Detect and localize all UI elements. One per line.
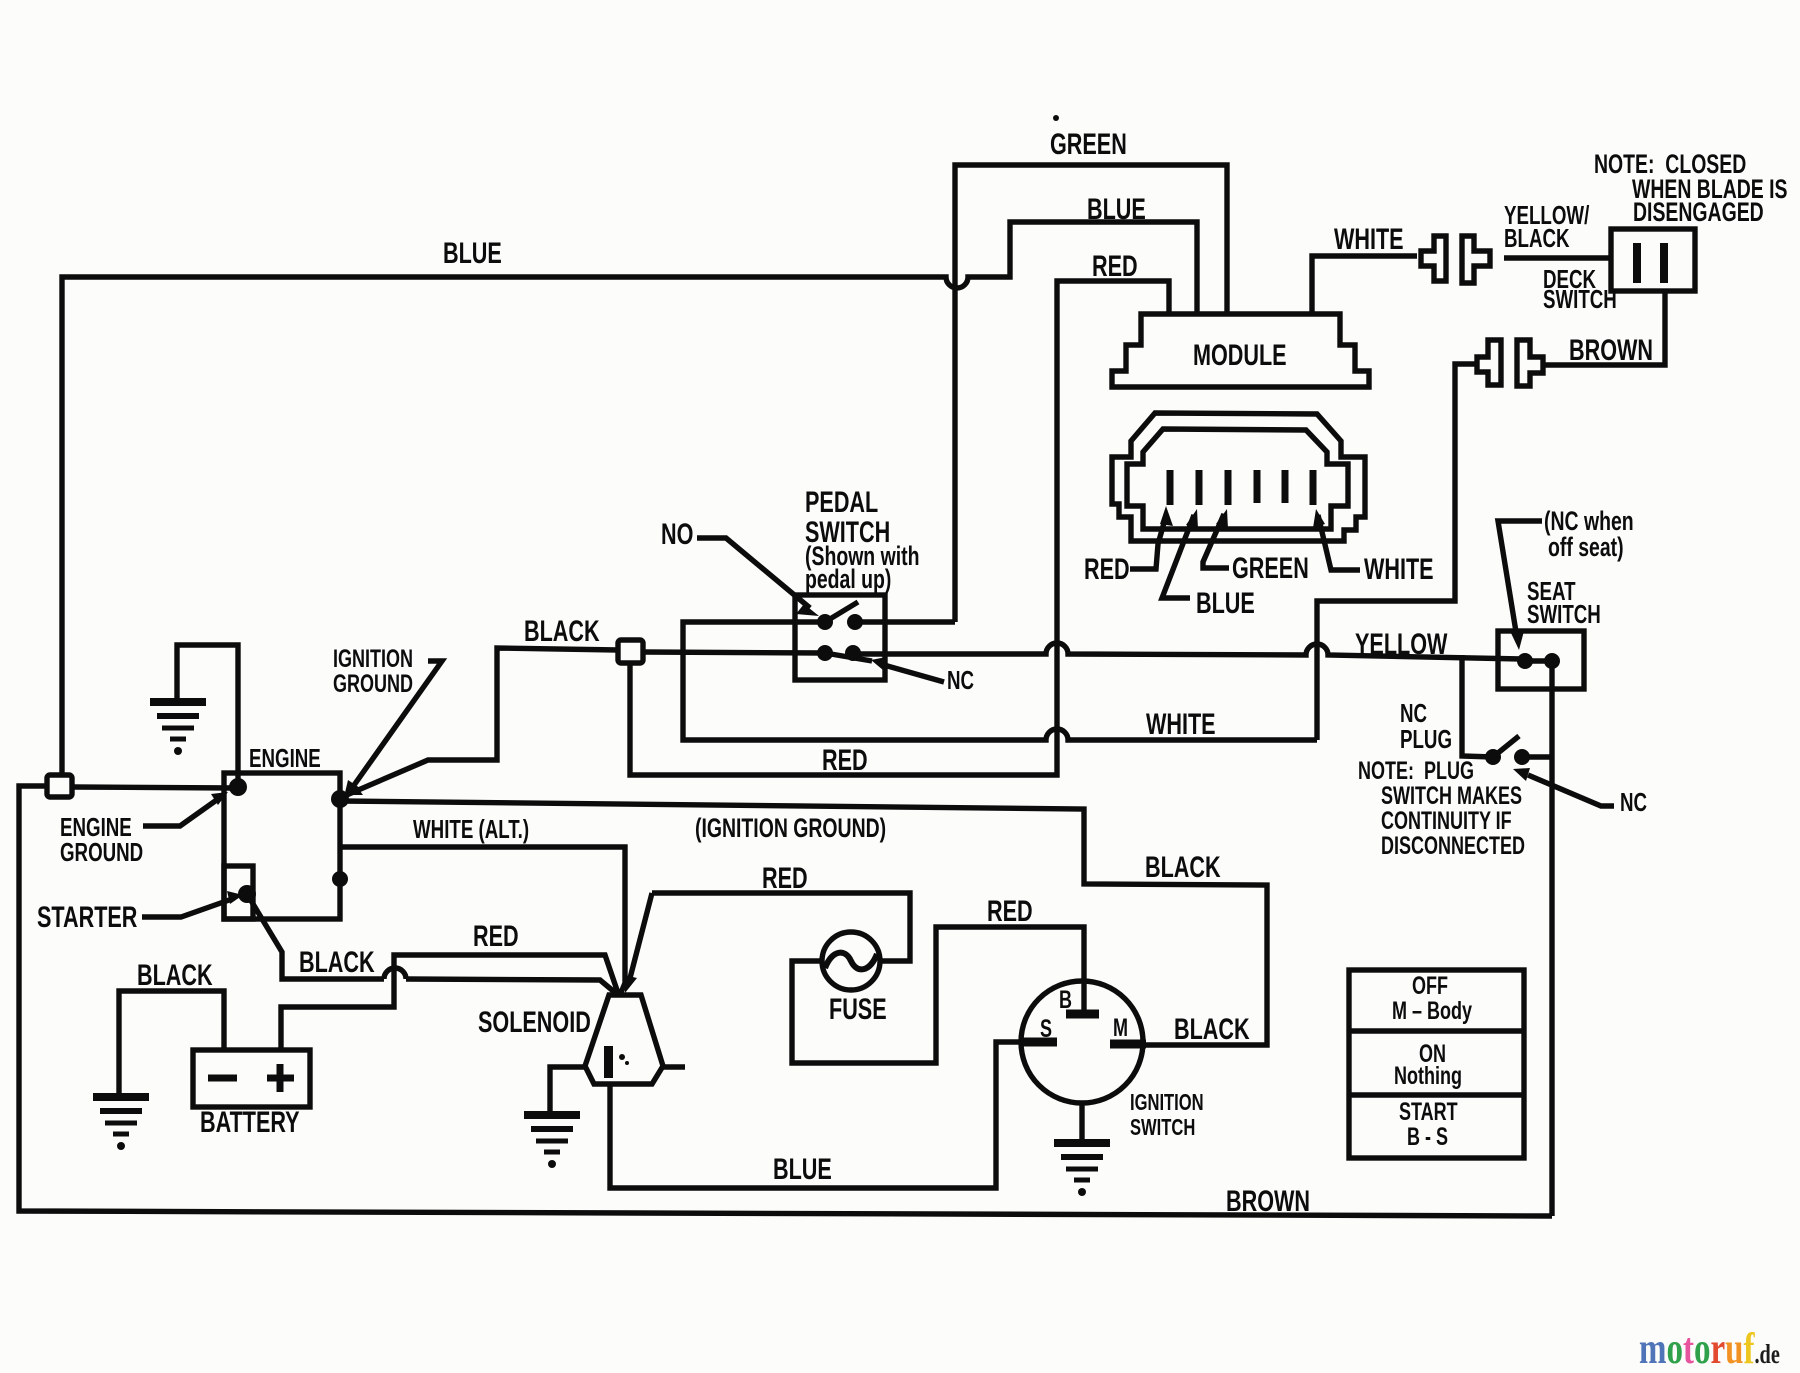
ignition terminal M [1110,1040,1146,1049]
wire WHITE module to deck connector [1312,256,1417,314]
leader BLUE pin2 [1162,509,1198,598]
label YELLOW [1355,630,1447,660]
wire black node to pedal [643,652,825,653]
label ENGINE GROUND [60,814,132,840]
label YELLOW/BLACK [1504,202,1589,228]
label NC pedal [947,667,974,693]
deck switch [1611,229,1695,291]
seat switch contacts [1517,653,1560,669]
label SEAT SWITCH [1527,578,1576,604]
label DECK SWITCH [1543,266,1596,292]
leader RED pin1 [1130,506,1173,569]
table text ON Nothing [1419,1042,1446,1067]
leader NC plug [1513,768,1614,806]
ground battery [93,1097,149,1150]
label BLACK battery [137,961,213,991]
battery plus symbol [267,1064,294,1092]
ignition switch circle [1021,981,1143,1103]
solenoid body [585,995,663,1084]
table OFF/ON/START [1349,970,1524,1158]
module connector outer shell [1112,413,1365,541]
wire BLUE bottom run [610,1042,1021,1188]
wire solenoid to ground [550,1067,563,1112]
solenoid core bar [604,1046,629,1078]
label BROWN bottom [1226,1187,1310,1217]
engine ground square node [47,775,72,797]
label (IGNITION GROUND) [695,815,886,842]
wire GREEN run [955,165,1227,622]
label WHITE row [1146,710,1216,740]
engine ground junction dot [229,778,247,796]
hop black over red vertical [384,968,406,979]
ignition switch ground stem [1079,1103,1084,1140]
leader NO [697,538,819,616]
connector pair (brown) [1477,340,1543,386]
NC plug contacts [1485,736,1552,765]
fuse [822,932,880,990]
arrowhead ignition ground wire [342,784,363,795]
label SOLENOID [478,1008,591,1038]
wire battery minus to ground [119,991,224,1094]
label STARTER [37,903,137,933]
label FUSE [829,995,887,1025]
wire BLUE top run [62,222,1197,775]
label WHITE deck row [1334,225,1404,255]
label IGNITION SWITCH [1130,1091,1204,1114]
leader GREEN pin3 [1203,509,1229,568]
label BLUE left run [443,239,502,269]
wire battery plus to red row [281,955,618,1050]
label RED pin1 [1084,555,1130,585]
wire brown connector down to white row [1317,364,1477,740]
label RED to B [987,897,1033,927]
label NC seat [1620,789,1647,815]
label GREEN pin3 [1232,554,1309,584]
battery box [193,1050,310,1107]
wire WHITE (ALT.) [340,847,625,995]
wire YELLOW/BLACK to deck switch [1504,255,1611,260]
label M [1113,1016,1128,1041]
wire seat switch down to brown row [1549,661,1554,1216]
leader IGNITION GROUND [344,661,442,797]
label BLUE module row [1087,195,1146,225]
table text START B-S [1399,1100,1458,1125]
seat switch box [1498,631,1584,689]
module connector inner shell [1127,429,1348,529]
label BLACK starter [299,948,375,978]
starter box [224,866,253,919]
label BLACK pedal row [524,617,600,647]
label (NC when off seat) [1544,508,1634,535]
leader (NC when off seat) [1498,521,1542,650]
label BROWN deck [1569,336,1653,366]
label IGNITION GROUND [333,647,413,672]
label BLUE pin2 [1196,589,1255,619]
speck above green label [1053,115,1059,121]
leader NC pedal [871,657,944,682]
connector pair (white / yellow-black) [1421,236,1490,283]
label NO [661,520,693,550]
ground engine top [150,702,206,755]
wire deck switch to brown connector [1545,291,1665,365]
label BLACK ignition row [1145,853,1221,883]
label S [1040,1017,1052,1042]
module connector pins [1170,470,1313,505]
module [1112,314,1369,387]
motoruf.de logo [1639,1323,1780,1373]
note plug switch continuity [1358,759,1474,784]
label BLACK to M [1174,1015,1250,1045]
pedal switch NC contacts [817,645,872,661]
ground ignition switch [1054,1143,1110,1196]
wire (IGNITION GROUND) row [340,801,1267,1045]
leader ENGINE GROUND [143,792,228,826]
label NC PLUG [1400,700,1427,726]
ignition terminal S [1021,1038,1057,1047]
wire green stub pedal [855,619,955,624]
leader STARTER [142,891,243,917]
label ENGINE [249,745,321,771]
leader WHITE pin6 [1313,509,1360,570]
pedal switch NO contacts [817,602,863,630]
wire square to engine [72,787,234,788]
battery minus symbol [208,1075,237,1082]
label GREEN top [1050,130,1127,160]
wire YELLOW row pedal to seat switch [853,643,1522,659]
wire starter to black row [247,894,618,995]
label B [1059,988,1072,1013]
label BLUE bottom [773,1155,832,1185]
wire yellow drop to NC plug [1462,655,1493,757]
label RED fuse top [762,864,808,894]
wire RED fuse to solenoid [624,893,910,993]
black square node (pedal circuit) [618,640,643,663]
label RED battery row [473,922,519,952]
engine right lower dot [332,871,348,887]
wire fuse to ignition B [792,927,1084,1063]
wire BLACK node to engine ignition ground [342,648,618,797]
wire RED top run [630,281,1169,775]
ignition terminal B [1066,1010,1099,1019]
starter dot [238,885,256,903]
label BATTERY [200,1108,300,1138]
solenoid side stubs [563,1064,685,1069]
label PEDAL SWITCH (Shown with pedal up) [805,488,878,518]
note closed when blade disengaged [1594,151,1746,178]
wire square to left border down to brown row [19,786,1552,1216]
label WHITE (ALT.) [413,816,529,842]
label MODULE [1193,341,1287,371]
ignition ground dot on engine [331,790,349,808]
engine top ground stem [177,645,238,782]
label RED row [822,746,868,776]
label RED module row [1092,252,1138,282]
ground solenoid [524,1115,580,1168]
pedal switch box [795,595,885,680]
wire WHITE row to pedal switch [683,622,1317,740]
table text OFF M-Body [1412,974,1448,999]
engine box [224,773,340,919]
label WHITE pin6 [1364,555,1434,585]
